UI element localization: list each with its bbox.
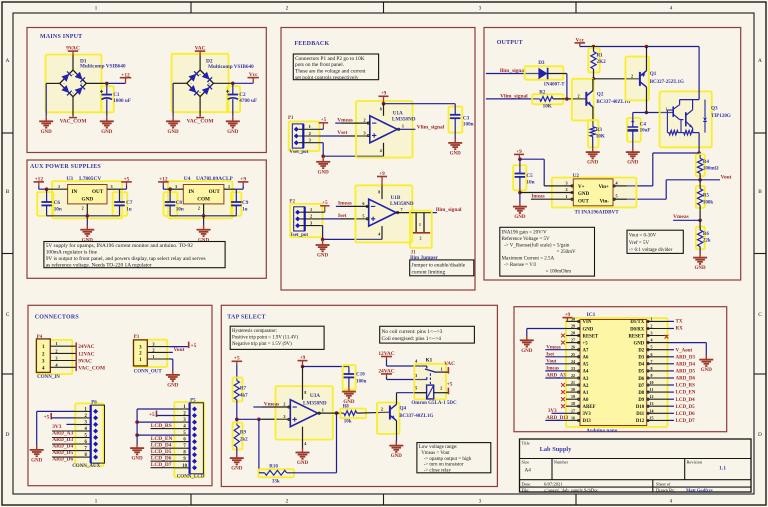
svg-text:GND: GND bbox=[317, 254, 329, 259]
svg-text:29: 29 bbox=[571, 324, 575, 329]
net label Ilim_signal bbox=[500, 68, 526, 74]
svg-text:4: 4 bbox=[380, 149, 382, 153]
wire Vout bbox=[700, 179, 720, 181]
svg-text:Negative trip pint = 1.5V (9V): Negative trip pint = 1.5V (9V) bbox=[232, 342, 292, 347]
svg-text:Jumper to enable/disable: Jumper to enable/disable bbox=[412, 263, 466, 269]
svg-text:Vref = 5V: Vref = 5V bbox=[629, 241, 650, 246]
svg-text:22k: 22k bbox=[703, 239, 711, 244]
junction bbox=[565, 97, 569, 101]
ground bbox=[316, 157, 330, 176]
svg-text:No coil current: pins 1<-->3: No coil current: pins 1<-->3 bbox=[382, 329, 443, 335]
ground bbox=[389, 441, 403, 460]
capacitor C10 bbox=[344, 367, 367, 389]
wire P6.1 to ground bbox=[37, 411, 76, 446]
svg-text:6: 6 bbox=[362, 201, 364, 206]
wire Vmeas to pin2 bbox=[253, 406, 290, 408]
net label Iset bbox=[545, 352, 566, 357]
svg-text:2: 2 bbox=[651, 324, 653, 329]
svg-text:OUTPUT: OUTPUT bbox=[497, 40, 523, 46]
svg-text:Vlim_signal: Vlim_signal bbox=[417, 125, 445, 131]
svg-text:GND: GND bbox=[521, 349, 533, 354]
junction bbox=[301, 365, 305, 369]
svg-text:2: 2 bbox=[363, 118, 365, 123]
svg-text:GND: GND bbox=[578, 192, 590, 197]
highlight box R2 bbox=[532, 94, 563, 104]
highlight box C3 bbox=[449, 107, 463, 133]
svg-text:10K: 10K bbox=[543, 104, 552, 110]
resistor R7 bbox=[234, 381, 248, 400]
wire P5.5 bbox=[137, 434, 174, 436]
ground bbox=[226, 116, 240, 135]
resistor R5 bbox=[698, 180, 714, 221]
svg-text:U1B: U1B bbox=[391, 195, 401, 201]
power port +9 bbox=[298, 355, 308, 367]
wire P5.3 bbox=[137, 421, 174, 423]
svg-text:GND: GND bbox=[695, 266, 707, 271]
svg-text:3: 3 bbox=[415, 373, 417, 378]
svg-text:A3: A3 bbox=[583, 377, 589, 382]
power port +5 bbox=[44, 413, 76, 421]
resistor R6 bbox=[698, 220, 711, 254]
svg-text:Vin-: Vin- bbox=[600, 199, 610, 204]
svg-text:D8: D8 bbox=[638, 391, 644, 396]
svg-text:GND: GND bbox=[82, 197, 94, 203]
wire D1 minus to VAC_COM bbox=[72, 97, 74, 116]
svg-text:-> turn on transistor: -> turn on transistor bbox=[424, 463, 464, 468]
net label VAC_COM bbox=[78, 365, 105, 371]
section box OUTPUT bbox=[484, 28, 741, 281]
svg-text:A4: A4 bbox=[525, 468, 532, 474]
net label ARD_A3 bbox=[545, 374, 566, 379]
svg-text:3: 3 bbox=[651, 331, 653, 336]
power port +5 bbox=[232, 356, 243, 381]
svg-text:Multicomp VSIB640: Multicomp VSIB640 bbox=[80, 64, 126, 70]
net label LCD_EN bbox=[668, 391, 696, 396]
no connect bbox=[561, 404, 565, 408]
svg-text:2: 2 bbox=[440, 385, 442, 390]
svg-text:P1: P1 bbox=[288, 116, 294, 121]
svg-text:U2: U2 bbox=[573, 173, 580, 179]
svg-text:2: 2 bbox=[198, 206, 200, 211]
power port +9 bbox=[236, 176, 248, 189]
svg-text:ARD_D5: ARD_D5 bbox=[676, 370, 696, 375]
power port +5 bbox=[189, 342, 197, 350]
wire U1A output bbox=[397, 128, 415, 130]
svg-text:3: 3 bbox=[479, 6, 482, 12]
svg-text:8: 8 bbox=[378, 191, 380, 195]
svg-text:CONN_LCD: CONN_LCD bbox=[177, 475, 205, 480]
wire Vlim_signal to R2 bbox=[486, 98, 540, 100]
svg-text:1: 1 bbox=[95, 6, 98, 12]
power port +12 bbox=[34, 176, 45, 189]
junction bbox=[135, 433, 139, 437]
power port VAC_COM bbox=[60, 116, 87, 125]
net label 3V3 bbox=[52, 424, 75, 430]
svg-text:C3: C3 bbox=[463, 115, 470, 121]
highlight box Q4 bbox=[377, 403, 400, 435]
svg-text:3: 3 bbox=[175, 184, 177, 189]
no connect bbox=[561, 397, 565, 401]
wire Imeas to pin6 bbox=[336, 205, 369, 207]
capacitor C6 bbox=[41, 189, 61, 216]
svg-text:LM358ND: LM358ND bbox=[303, 400, 327, 406]
junction bbox=[257, 418, 261, 422]
wire Vmeas bbox=[673, 219, 700, 221]
net label LCD_D5 bbox=[151, 449, 175, 455]
junction bbox=[645, 45, 649, 49]
highlight box R7 bbox=[233, 378, 243, 402]
wire Q2 collector bbox=[592, 79, 594, 91]
svg-text:TIP120G: TIP120G bbox=[711, 114, 731, 119]
svg-text:C8: C8 bbox=[176, 200, 183, 206]
highlight box C4 bbox=[627, 118, 641, 142]
svg-text:1: 1 bbox=[309, 124, 311, 129]
wire Q1 collector down bbox=[646, 87, 648, 112]
svg-text:15: 15 bbox=[650, 415, 654, 420]
svg-text:1.1: 1.1 bbox=[719, 465, 726, 471]
svg-text:6: 6 bbox=[651, 352, 653, 357]
wire +9 to C3 bbox=[384, 103, 456, 105]
junction bbox=[518, 157, 522, 161]
svg-text:Connectors P1 and P2 go to 10K: Connectors P1 and P2 go to 10K bbox=[295, 56, 365, 62]
svg-text:C7: C7 bbox=[126, 200, 133, 206]
wire P2.3 to ground rail bbox=[321, 226, 382, 240]
ground bbox=[197, 216, 211, 244]
net label ARD_D4 bbox=[52, 444, 75, 450]
svg-text:-> close relay: -> close relay bbox=[424, 469, 452, 474]
power port +9 bbox=[514, 149, 524, 159]
svg-text:14: 14 bbox=[650, 408, 654, 413]
svg-text:Arduino nano: Arduino nano bbox=[586, 428, 617, 434]
svg-text:pots on the front panel.: pots on the front panel. bbox=[295, 61, 344, 68]
wire Q1 emitter up bbox=[646, 47, 648, 71]
svg-text:IN: IN bbox=[188, 189, 194, 195]
svg-text:4: 4 bbox=[670, 6, 673, 12]
svg-text:-> 6:1 voltage divider: -> 6:1 voltage divider bbox=[629, 248, 673, 253]
junction bbox=[235, 418, 239, 422]
junction bbox=[698, 219, 702, 223]
svg-text:R9: R9 bbox=[240, 431, 247, 436]
wire +9 to U2 V+ bbox=[520, 159, 573, 186]
svg-text:5: 5 bbox=[362, 214, 364, 219]
svg-text:D: D bbox=[758, 432, 762, 438]
highlight box K1 bbox=[414, 364, 446, 400]
svg-text:VAC: VAC bbox=[444, 361, 455, 367]
highlight box D2 bbox=[172, 54, 229, 112]
svg-text:1: 1 bbox=[441, 367, 443, 372]
net label ARD_D6 bbox=[668, 377, 695, 382]
junction bbox=[321, 238, 325, 242]
microcontroller IC1 Arduino nano bbox=[566, 312, 668, 434]
power port VAC bbox=[195, 46, 206, 56]
svg-text:1: 1 bbox=[565, 194, 567, 199]
net label ARD_D6 bbox=[52, 457, 75, 463]
svg-text:Number: Number bbox=[554, 460, 569, 465]
svg-text:A7: A7 bbox=[583, 349, 589, 354]
svg-text:R7: R7 bbox=[240, 386, 247, 391]
wire sense- to U2 bbox=[627, 180, 700, 199]
net label 9VAC bbox=[78, 359, 92, 365]
net label ARD_A3 bbox=[52, 431, 75, 437]
svg-text:5: 5 bbox=[651, 345, 653, 350]
svg-text:8: 8 bbox=[651, 366, 653, 371]
wire sense+ to U2 bbox=[627, 153, 699, 186]
resistor R4 bbox=[698, 158, 719, 180]
op-amp U3A bbox=[283, 367, 327, 449]
net label Vmeas bbox=[545, 345, 566, 350]
svg-text:5V supply for opamps, INA196 c: 5V supply for opamps, INA196 current mon… bbox=[46, 242, 193, 249]
svg-text:2: 2 bbox=[82, 206, 84, 211]
svg-text:A6: A6 bbox=[583, 356, 589, 361]
svg-text:U3: U3 bbox=[66, 176, 73, 182]
capacitor C5 bbox=[515, 159, 535, 192]
relay K1 bbox=[411, 358, 457, 407]
svg-text:-> opamp output = high: -> opamp output = high bbox=[424, 457, 472, 462]
svg-text:D11: D11 bbox=[636, 412, 645, 417]
junction bbox=[45, 187, 49, 191]
svg-text:Q3: Q3 bbox=[711, 106, 718, 112]
wire node to Q3 base bbox=[646, 107, 673, 113]
voltage regulator U4 bbox=[169, 176, 236, 216]
svg-text:1: 1 bbox=[152, 354, 154, 359]
junction bbox=[168, 187, 172, 191]
power port +12 bbox=[158, 176, 169, 189]
net label Imeas bbox=[338, 201, 352, 207]
bridge rectifier D1 bbox=[60, 58, 126, 96]
net label LCD_D7 bbox=[151, 462, 175, 468]
power port +5 bbox=[447, 382, 453, 395]
svg-text:RESET: RESET bbox=[583, 334, 600, 339]
net label LCD_D4 bbox=[151, 443, 175, 449]
net label V_Aout bbox=[668, 348, 693, 353]
net label LCD_D6 bbox=[668, 412, 695, 417]
svg-text:ARD_D3: ARD_D3 bbox=[676, 355, 696, 360]
net label ARD_D3 bbox=[52, 437, 75, 443]
connector P4 CONN_IN bbox=[36, 335, 76, 380]
svg-text:+: + bbox=[81, 82, 83, 86]
svg-text:8: 8 bbox=[304, 391, 306, 395]
power port +9 bbox=[377, 171, 387, 186]
svg-text:2: 2 bbox=[286, 499, 289, 505]
svg-text:c:\users\..\lab_supply.SchDoc: c:\users\..\lab_supply.SchDoc bbox=[544, 487, 598, 492]
svg-text:U4: U4 bbox=[184, 176, 191, 182]
svg-text:~: ~ bbox=[72, 91, 74, 95]
wire Ilim_signal to D3 bbox=[486, 73, 539, 75]
svg-text:U1A: U1A bbox=[393, 110, 403, 116]
title block bbox=[520, 439, 752, 492]
svg-text:ARD_D3: ARD_D3 bbox=[52, 437, 73, 443]
svg-text:Matt Godfrey: Matt Godfrey bbox=[686, 487, 714, 492]
svg-text:GND: GND bbox=[198, 238, 210, 243]
svg-text:K1: K1 bbox=[426, 358, 433, 364]
section box AUX POWER SUPPLIES bbox=[27, 160, 266, 278]
svg-text:MAINS INPUT: MAINS INPUT bbox=[40, 34, 82, 40]
svg-text:IN: IN bbox=[72, 189, 78, 195]
highlight box IC1 bbox=[566, 318, 668, 427]
svg-text:22: 22 bbox=[571, 373, 575, 378]
svg-text:L7805CV: L7805CV bbox=[79, 176, 101, 182]
svg-text:LCD_RS: LCD_RS bbox=[151, 423, 172, 429]
svg-text:ARD_D4: ARD_D4 bbox=[52, 444, 73, 450]
resistor R10 bbox=[259, 465, 337, 485]
svg-text:11: 11 bbox=[650, 387, 654, 392]
power port 9VAC bbox=[66, 46, 80, 56]
ground bbox=[166, 116, 180, 135]
svg-text:+5: +5 bbox=[44, 415, 50, 421]
ground bbox=[586, 147, 600, 166]
svg-text:GND: GND bbox=[231, 467, 243, 472]
highlight box U4 bbox=[168, 181, 233, 218]
svg-text:100k: 100k bbox=[703, 201, 714, 206]
svg-text:9: 9 bbox=[651, 373, 653, 378]
net label Vmeas bbox=[673, 214, 689, 220]
ground bbox=[316, 240, 330, 259]
svg-text:A1: A1 bbox=[583, 391, 589, 396]
svg-text:25: 25 bbox=[571, 352, 575, 357]
note box low voltage bbox=[417, 443, 491, 474]
capacitor C2 bbox=[226, 83, 257, 116]
highlight box R3 bbox=[588, 120, 599, 148]
svg-text:GND: GND bbox=[41, 130, 53, 135]
svg-text:C9: C9 bbox=[242, 200, 249, 206]
net label ARD_D13 bbox=[545, 416, 568, 421]
svg-text:2K2: 2K2 bbox=[597, 59, 607, 65]
svg-text:~: ~ bbox=[72, 73, 74, 77]
svg-text:U3A: U3A bbox=[310, 393, 320, 399]
ground bbox=[342, 387, 356, 406]
wire U3 ground rail bbox=[47, 215, 120, 217]
svg-text:Title: Title bbox=[522, 440, 530, 445]
svg-text:GND: GND bbox=[634, 341, 645, 346]
op-amp U1A bbox=[363, 104, 415, 157]
svg-text:C5: C5 bbox=[526, 173, 533, 179]
power port +5 bbox=[149, 411, 174, 419]
svg-text:6/07/2021: 6/07/2021 bbox=[544, 481, 563, 486]
wire Q3 emitter bbox=[698, 133, 700, 153]
svg-text:2k2: 2k2 bbox=[240, 438, 248, 443]
no connect bbox=[561, 383, 565, 387]
highlight box D3 bbox=[525, 66, 564, 80]
svg-text:Reference Voltage = 5V: Reference Voltage = 5V bbox=[502, 237, 550, 242]
highlight box J1 bbox=[410, 211, 432, 248]
svg-text:GND: GND bbox=[101, 130, 113, 135]
svg-text:100mA regulator is fine: 100mA regulator is fine bbox=[46, 249, 98, 256]
svg-text:1: 1 bbox=[419, 223, 421, 227]
net label ARD_D4 bbox=[668, 362, 695, 367]
svg-text:LCD_D7: LCD_D7 bbox=[676, 419, 696, 424]
note box divider bbox=[627, 230, 683, 253]
svg-text:TAP SELECT: TAP SELECT bbox=[227, 314, 265, 320]
junction bbox=[105, 82, 109, 86]
svg-text:1: 1 bbox=[310, 207, 312, 212]
highlight box Q1 bbox=[625, 57, 649, 101]
svg-text:R5: R5 bbox=[703, 194, 710, 199]
svg-text:10n: 10n bbox=[54, 206, 62, 212]
svg-text:GND: GND bbox=[318, 170, 330, 175]
svg-text:33k: 33k bbox=[272, 480, 280, 485]
resistor R3 bbox=[590, 127, 605, 149]
svg-text:GND: GND bbox=[583, 327, 594, 332]
svg-text:GND: GND bbox=[450, 152, 462, 157]
wire P1.1 to +5 bbox=[319, 128, 323, 130]
power port VAC bbox=[444, 361, 455, 374]
svg-text:Positive trip point = 1.9V (11: Positive trip point = 1.9V (11.4V) bbox=[232, 336, 299, 341]
power port +12 bbox=[120, 72, 131, 83]
wire U4 ground rail bbox=[170, 215, 236, 217]
svg-text:CONNECTORS: CONNECTORS bbox=[35, 314, 80, 320]
capacitor C3 bbox=[450, 104, 474, 140]
svg-text:BC337-40ZL1G: BC337-40ZL1G bbox=[399, 414, 433, 419]
wire U3A output bbox=[318, 412, 344, 414]
svg-text:R3: R3 bbox=[596, 127, 603, 133]
svg-text:Lab Supply: Lab Supply bbox=[540, 446, 573, 453]
svg-text:LCD_D4: LCD_D4 bbox=[676, 398, 696, 403]
svg-text:CONN_IN: CONN_IN bbox=[37, 375, 60, 380]
svg-text:OUT: OUT bbox=[578, 199, 590, 204]
resistor R1 bbox=[591, 47, 606, 79]
svg-text:GND: GND bbox=[514, 215, 526, 220]
svg-text:LCD_D7: LCD_D7 bbox=[151, 462, 172, 468]
capacitor C7 bbox=[114, 189, 133, 216]
svg-text:D6: D6 bbox=[638, 377, 644, 382]
section box CONNECTORS bbox=[28, 305, 212, 485]
net label ARD_D5 bbox=[52, 450, 75, 456]
note box relay pins bbox=[380, 326, 475, 343]
net label RX bbox=[668, 327, 683, 332]
no connect bbox=[561, 390, 565, 394]
svg-text:9VAC: 9VAC bbox=[78, 359, 92, 365]
svg-text:D10: D10 bbox=[636, 405, 645, 410]
svg-text:INA196 gain = 20V/V: INA196 gain = 20V/V bbox=[502, 230, 548, 235]
junction bbox=[335, 411, 339, 415]
svg-text:B: B bbox=[6, 189, 10, 195]
svg-text:as reference voltage. Needs TO: as reference voltage. Needs TO-220 1A re… bbox=[46, 262, 152, 269]
svg-text:Vout: Vout bbox=[721, 174, 732, 180]
svg-text:A5: A5 bbox=[583, 363, 589, 368]
svg-text:ARD_D6: ARD_D6 bbox=[52, 457, 73, 463]
svg-text:+5: +5 bbox=[191, 343, 197, 349]
svg-text:R2: R2 bbox=[539, 89, 546, 95]
svg-text:A: A bbox=[6, 58, 10, 64]
svg-text:Vin+: Vin+ bbox=[598, 185, 609, 190]
svg-text:RX: RX bbox=[676, 327, 684, 332]
svg-text:-> V_Rsense(full scale) = 5/ga: -> V_Rsense(full scale) = 5/gain bbox=[504, 243, 570, 248]
wire P3.3 to +5 bbox=[169, 346, 188, 348]
highlight box U3 bbox=[52, 181, 122, 218]
section box ARDUINO bbox=[514, 307, 727, 432]
junction bbox=[698, 178, 702, 182]
connector P3 CONN_OUT bbox=[134, 335, 169, 375]
transistor Q2 bbox=[577, 91, 630, 107]
svg-text:C10: C10 bbox=[356, 373, 365, 378]
power port +5 bbox=[320, 200, 329, 212]
svg-text:1000 uF: 1000 uF bbox=[113, 98, 131, 104]
svg-text:A0: A0 bbox=[583, 398, 589, 403]
junction bbox=[382, 102, 386, 106]
highlight box C5 bbox=[513, 165, 526, 190]
svg-text:2: 2 bbox=[309, 131, 311, 136]
svg-text:LM358ND: LM358ND bbox=[392, 117, 416, 123]
net label 12VAC bbox=[78, 351, 94, 357]
wire P5.5 stub bbox=[137, 434, 174, 436]
wire node to C4 bbox=[633, 112, 647, 114]
no connect bbox=[665, 335, 669, 339]
capacitor C1 bbox=[100, 83, 131, 116]
svg-text:A: A bbox=[758, 58, 762, 64]
svg-text:2: 2 bbox=[420, 237, 422, 241]
svg-text:V+: V+ bbox=[578, 185, 585, 190]
svg-text:LCD_EN: LCD_EN bbox=[676, 391, 696, 396]
